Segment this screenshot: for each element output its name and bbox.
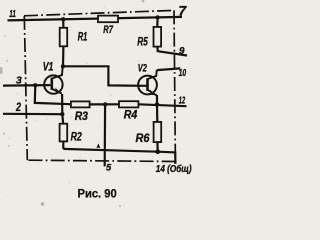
- svg-text:12: 12: [179, 95, 185, 107]
- resistor R1: [60, 19, 88, 66]
- wire branch pin3 node down to R3: [35, 85, 71, 104]
- svg-text:Рис. 90: Рис. 90: [78, 187, 117, 201]
- svg-text:2: 2: [15, 102, 21, 114]
- node pin 3 label: [16, 75, 22, 87]
- node pin 9 label: [179, 46, 185, 57]
- node pin 12 label: [179, 95, 185, 107]
- node pin 10 label: [179, 67, 187, 79]
- node junction emitter-R2: [60, 112, 64, 116]
- node pin 5 label: [106, 162, 112, 172]
- svg-text:R6: R6: [136, 131, 150, 145]
- dash-dot enclosure border top: [24, 10, 174, 15]
- svg-text:R5: R5: [137, 35, 148, 49]
- node pin 2 label: [15, 102, 21, 114]
- node junction R3-R4-pin5: [103, 102, 107, 106]
- svg-text:10: 10: [179, 67, 187, 79]
- svg-text:5: 5: [106, 162, 112, 172]
- node small junction dot on bottom rail: [97, 143, 101, 148]
- wire top supply rail (pin 11 to pin 7): [8, 17, 183, 21]
- svg-text:11: 11: [9, 8, 16, 20]
- resistor R2: [60, 114, 82, 149]
- dash-dot enclosure border bottom: [29, 160, 176, 161]
- transistor V1: [43, 60, 63, 94]
- node junction base-R3 branch: [33, 83, 37, 87]
- wire V1 emitter down to pin2 node: [61, 94, 63, 114]
- scan noise specks: [6, 7, 187, 206]
- node junction V1 collector / R1: [61, 64, 65, 68]
- svg-text:R1: R1: [78, 32, 88, 44]
- resistor R4: [119, 101, 138, 122]
- node pin 11 label: [9, 8, 16, 20]
- wire pin 2 to emitter node: [3, 113, 62, 116]
- resistor R3: [71, 101, 90, 122]
- wire bottom rail (R2 to pin 14): [63, 149, 175, 164]
- node pin 14 label: [156, 164, 192, 175]
- resistor R7: [98, 16, 118, 36]
- resistor R5: [137, 18, 187, 56]
- svg-text:V1: V1: [43, 60, 54, 74]
- transistor V2: [138, 63, 157, 96]
- svg-text:7: 7: [178, 3, 187, 19]
- caption Рис. 90: [78, 187, 117, 201]
- wire V2 emitter junction down to R6: [156, 95, 159, 122]
- wire cross-coupling V1 collector to V2 base: [63, 66, 147, 86]
- svg-text:R4: R4: [124, 108, 138, 122]
- wire R3 to R4: [90, 103, 119, 105]
- resistor R6: [136, 122, 162, 152]
- dash-dot enclosure border right: [174, 10, 175, 163]
- node junction R6-bottom rail: [155, 149, 160, 154]
- svg-text:V2: V2: [138, 63, 147, 75]
- svg-text:14 (Общ): 14 (Общ): [156, 164, 192, 175]
- dash-dot enclosure border left: [24, 16, 27, 160]
- node junction R5-rail: [155, 15, 159, 19]
- wire pin 12 row (R4 right through V2 emitter to border): [138, 104, 186, 106]
- wire pin 10 (V2 collector out): [157, 68, 181, 70]
- node junction V2 emitter-R6: [155, 102, 160, 107]
- node junction R1-rail: [61, 17, 65, 21]
- svg-text:R7: R7: [103, 24, 113, 36]
- svg-text:R3: R3: [75, 109, 88, 123]
- wire pin 5 vertical: [104, 104, 107, 166]
- svg-text:9: 9: [179, 46, 185, 57]
- svg-text:R2: R2: [71, 130, 82, 144]
- node pin 7 label: [178, 3, 187, 19]
- wire pin 3 to V1 base: [3, 84, 50, 87]
